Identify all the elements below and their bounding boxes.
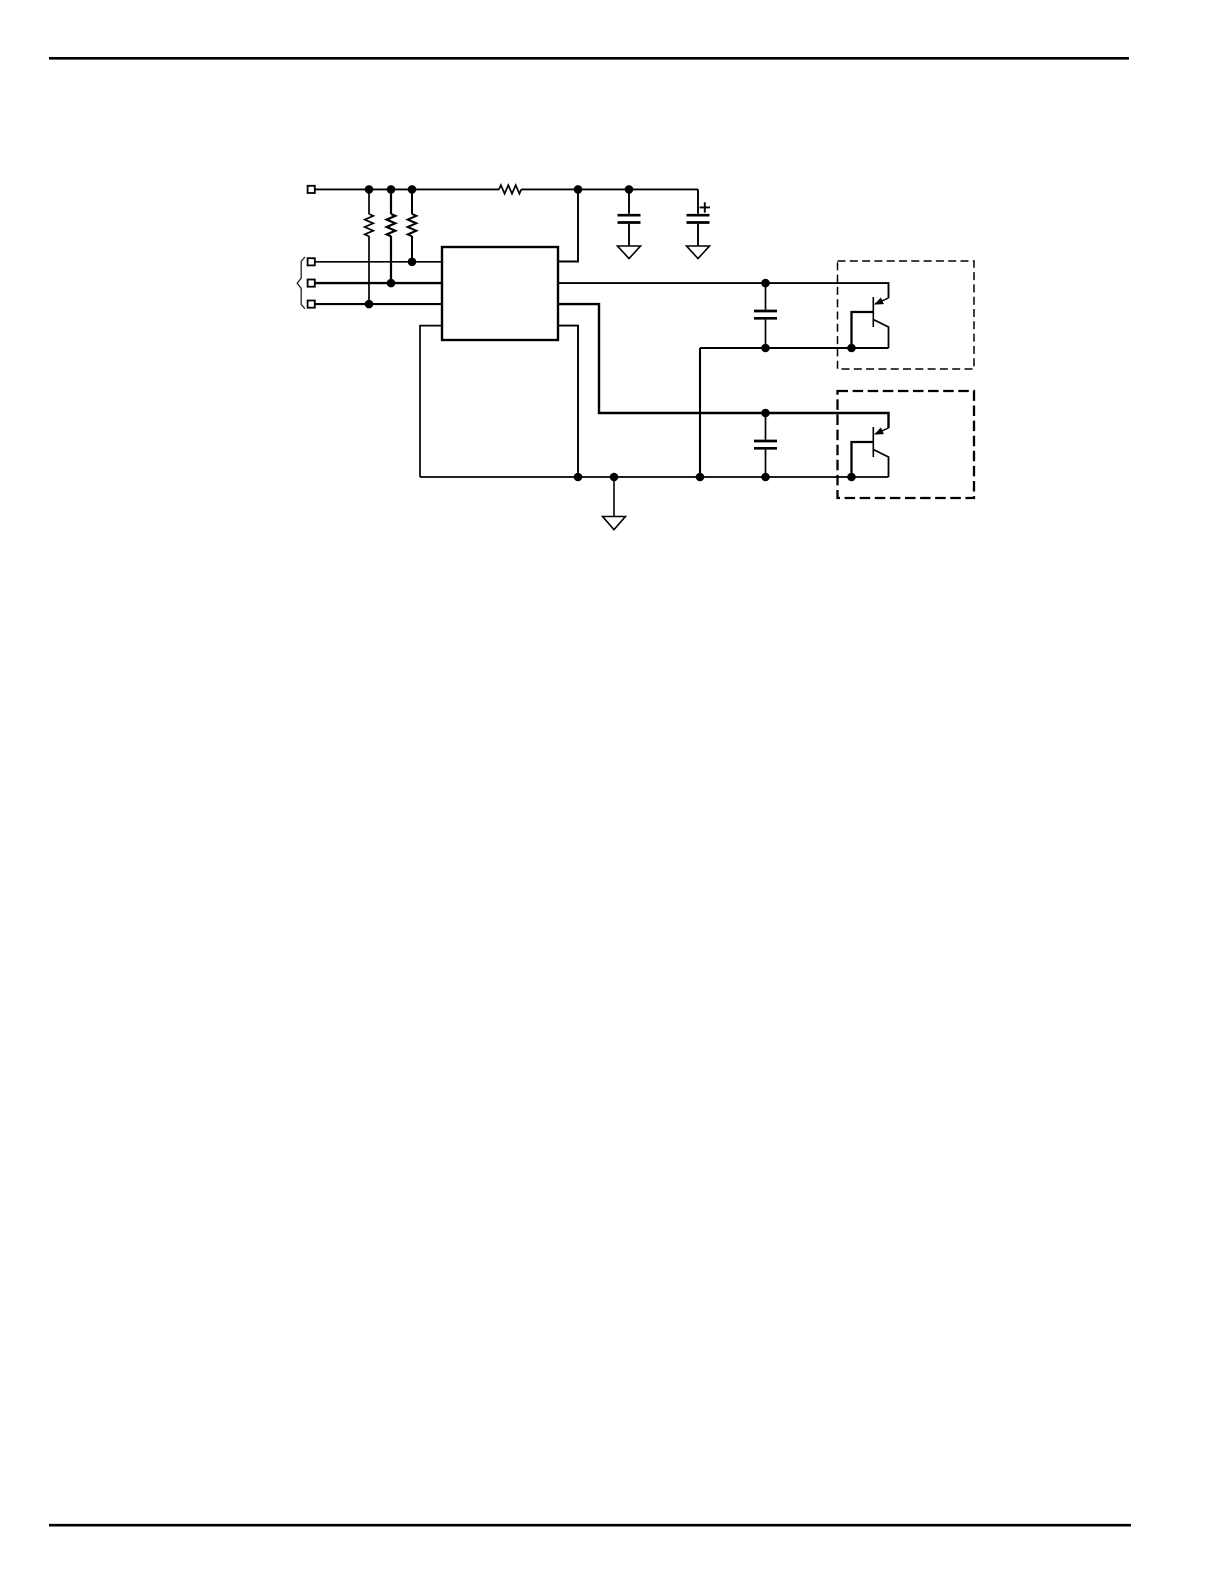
capacitor C3 xyxy=(754,283,777,348)
enclosure (lower dashed box) xyxy=(838,391,975,498)
resistor R4 (series, horizontal) xyxy=(499,185,521,194)
node dot line2/R2 xyxy=(387,279,396,288)
footer rule xyxy=(49,1524,1131,1527)
node dot rail/U1 supply xyxy=(574,185,583,194)
capacitor C1 xyxy=(618,189,641,246)
node dot rail/R3 xyxy=(408,185,417,194)
ground (main) xyxy=(603,477,626,530)
wire input line 2 xyxy=(315,282,442,284)
node dot rail/U1 gnd xyxy=(574,473,583,482)
node dot line1/R3 xyxy=(408,258,417,267)
wire U1 ground pin left loop xyxy=(420,326,442,477)
resistor R3 (pull-up to line 1) xyxy=(408,189,417,262)
connector J4 (input line 3) xyxy=(308,301,315,308)
node dot rail/R1 xyxy=(365,185,374,194)
wire ground rail bottom xyxy=(420,476,889,478)
node dot rail/gnd stem xyxy=(610,473,619,482)
node dot line3/R1 xyxy=(365,300,374,309)
connector J1 (top input pad) xyxy=(308,186,315,193)
transistor Q2 (lower, PNP) xyxy=(852,427,889,477)
node dot C3/node line xyxy=(761,344,770,353)
node dot rail/riser xyxy=(696,473,705,482)
node dot C4/rail xyxy=(761,473,770,482)
wire input line 1 xyxy=(315,261,442,263)
wire top rail left xyxy=(315,188,499,190)
node dot rail/C1 xyxy=(625,185,634,194)
header rule xyxy=(49,57,1129,60)
node dot out1/C3 xyxy=(761,279,770,288)
resistor R2 (pull-up to line 2) xyxy=(387,189,396,283)
wire input line 3 xyxy=(315,303,442,305)
capacitor C2 (polarized) xyxy=(687,189,711,246)
ground (C2) xyxy=(687,246,710,259)
node dot base-return2/rail xyxy=(847,473,856,482)
op-amp U1 (controller IC box) xyxy=(442,247,558,340)
enclosure (upper dashed box) xyxy=(838,261,975,369)
connector J2 (input line 1) xyxy=(308,258,315,265)
resistor R1 (pull-up to line 3) xyxy=(365,189,374,304)
brace (input group) xyxy=(297,257,305,309)
ground (C1) xyxy=(618,246,641,259)
wire output 2 (U1 to Q2) xyxy=(558,304,889,428)
wire output 1 (U1 to Q1) xyxy=(558,283,889,298)
wire U1 ground pin right xyxy=(558,326,578,477)
wire top rail right xyxy=(521,188,698,190)
transistor Q1 (upper, PNP) xyxy=(852,297,889,348)
node dot out2/C4 xyxy=(761,409,770,418)
connector J3 (input line 2) xyxy=(308,280,315,287)
capacitor C4 xyxy=(754,413,777,477)
wire Q1 emitter-node line xyxy=(700,347,889,349)
wire riser node-to-rail xyxy=(699,348,701,477)
wire U1 supply pin to rail xyxy=(558,189,578,261)
node dot rail/R2 xyxy=(387,185,396,194)
node dot base-return/node line xyxy=(847,344,856,353)
